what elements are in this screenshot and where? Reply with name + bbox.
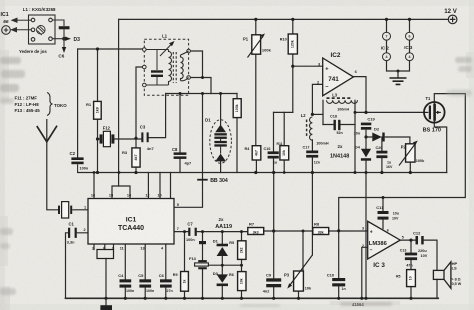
wire: R1 to F12 to bus <box>97 119 99 172</box>
antenna <box>37 126 57 142</box>
capacitor C10 <box>332 278 345 286</box>
connector IC1 pin view box <box>29 15 56 44</box>
capacitor C18 <box>334 120 341 130</box>
diode D3 AA119 <box>217 274 228 286</box>
potentiometer P2 <box>399 141 418 166</box>
label P3 10k <box>284 272 312 290</box>
resistor R1 <box>94 101 102 119</box>
wire: R11 column <box>283 112 285 172</box>
wire: C17 wiper column with P3 arrow lead <box>311 158 313 255</box>
wire: 741 output down to detector line <box>353 77 366 113</box>
wire: tank frame right down to bus <box>354 100 356 172</box>
capacitor C19 <box>361 123 371 130</box>
capacitor C9 <box>266 278 281 287</box>
label C12 220u 10V <box>413 230 428 258</box>
capacitor C6b <box>160 279 172 287</box>
ceramic filter F11 <box>58 202 72 218</box>
wire: C10 column stub <box>338 231 340 298</box>
diode D1 AA119 <box>217 244 228 256</box>
wire: F12 leads <box>98 138 142 140</box>
ceramic filter F12 <box>100 131 114 146</box>
wire: supply pins 4 to ground <box>387 61 410 77</box>
brace for TOKO <box>47 93 53 116</box>
wire: pin 11 to C4 <box>124 244 126 298</box>
wire: P3 bottom stub <box>298 291 300 298</box>
resistor R4 <box>252 146 261 160</box>
wire: left 12V drop to pins 15/14 link <box>118 19 120 186</box>
label C10 1n <box>327 273 346 292</box>
IC1 pin number labels <box>84 194 179 251</box>
wire: C13/R5 column <box>410 240 412 298</box>
resistor R12 <box>407 270 416 287</box>
wire: node at y49 to L1 <box>78 48 145 50</box>
wire: IC1 bottom pins 2,8,9 into box <box>94 244 114 250</box>
L1 shield dashed box <box>144 39 188 95</box>
wire: F13 column <box>202 232 204 299</box>
wire: R4 bottom stub <box>255 160 257 173</box>
wire: P1 column <box>255 19 257 145</box>
wire: P2 bottom stub <box>409 162 411 172</box>
wire: R7 to R8 link <box>264 230 313 232</box>
capacitor C12 <box>416 236 424 244</box>
wire: AA119 diode column <box>221 232 223 299</box>
wire: C19 to D2 anode <box>366 130 372 137</box>
wire: speaker to rail <box>436 279 438 298</box>
wire: 741 pin2 lead down to L2 <box>312 84 322 114</box>
L1 tuning arrow <box>160 41 175 56</box>
wire: C16 column <box>273 112 275 172</box>
paper shading artifacts <box>0 0 474 6</box>
diode D2 <box>372 133 384 142</box>
wire: IC2/IC3 supply pin stubs <box>387 19 410 52</box>
wire: 741 pin3 lead <box>293 65 323 67</box>
wire: C8 column <box>179 94 181 173</box>
resistor R5 <box>238 241 246 260</box>
capacitor C13 <box>405 253 417 260</box>
wire: C3 right lead up to L1 bottom <box>149 94 166 138</box>
arrows to terminal labels <box>12 18 32 32</box>
capacitor C11 <box>378 211 389 220</box>
wire: pin15-pin14 link <box>112 186 130 199</box>
potentiometer P1 <box>248 34 266 58</box>
wire: IC1 pin7 output line to R7 <box>174 231 248 233</box>
wire: +12V top rail <box>119 18 449 20</box>
capacitor C3 <box>141 132 148 142</box>
L1 terminals <box>143 48 191 87</box>
resistor R3 <box>132 148 140 167</box>
label HP LS speaker <box>451 261 461 286</box>
wire: drop to C2 <box>77 49 79 157</box>
label C13 47n <box>400 248 414 267</box>
wire: R2 100k column <box>236 94 238 173</box>
capacitor C1 <box>68 228 77 238</box>
L1 internal padder capacitor <box>146 50 166 86</box>
wire: detector line to T1 gate <box>355 111 424 113</box>
resistor R7 <box>248 228 264 235</box>
resistor R2 100k <box>233 99 241 118</box>
wire: node line under L1 <box>166 93 237 95</box>
resistor R8 <box>313 228 329 235</box>
capacitor C4 <box>120 279 132 287</box>
label C11 10u 10V <box>376 205 399 221</box>
wire: IC1 top pin columns <box>94 173 171 199</box>
capacitor C7 <box>188 228 197 236</box>
label BB304 with dash <box>197 178 228 184</box>
wire: long column bus to C9 to rail <box>273 173 275 299</box>
wire: tank bottom edge <box>323 124 355 126</box>
ground near IC2/IC3 <box>390 78 407 84</box>
12V supply terminal <box>448 15 457 24</box>
ground symbol bottom <box>100 305 112 310</box>
capacitor C20 <box>376 151 387 158</box>
wire: R8 to IC3 pin3 <box>329 230 368 232</box>
transistor T1 BS170 <box>424 102 445 123</box>
tank coil L3 <box>327 98 358 103</box>
filter list F11 F12 F13 <box>15 96 68 114</box>
resistor R10 <box>288 34 297 54</box>
wire: L2 node to tank <box>312 113 323 115</box>
label 2x AA119 <box>215 217 232 230</box>
resistor R9 <box>181 272 189 292</box>
loudspeaker HP LS <box>433 262 451 289</box>
label C4 100n <box>118 273 134 293</box>
wire: oscillator line to IC1 pin5 <box>174 94 202 208</box>
quartz filter box under pins 8/9 <box>97 250 114 259</box>
capacitor C17 <box>306 151 318 158</box>
wire: D1 varicap column <box>220 94 222 173</box>
wire: C1 ground leg and bottom rail left corner <box>66 233 89 298</box>
label 1u 16V C20 <box>386 160 393 169</box>
node 66 terminal <box>2 26 11 35</box>
wire: pin 4 to C6 <box>165 244 167 298</box>
resistor R11 <box>280 146 289 160</box>
wire: IC3 pin2 to ground <box>362 247 368 298</box>
op-amp IC3 LM386 <box>362 221 404 268</box>
resistor R6 <box>238 272 246 291</box>
wire: P3 feed column <box>302 231 304 271</box>
wire: tank frame left <box>322 100 324 124</box>
wire: IC3 output to C12 <box>400 239 415 241</box>
capacitor C5 <box>139 279 151 287</box>
wire: pin 13 to C5 <box>144 244 146 298</box>
wire: antenna down lead <box>47 120 58 210</box>
wire: L2 to C17 <box>311 140 313 151</box>
wire: L1 mid terminal to R3 column <box>136 67 144 148</box>
coil former hatched circle <box>37 26 46 36</box>
wire: T1 drain to supply loop <box>339 94 466 231</box>
capacitor C8 <box>174 152 187 159</box>
op-amp IC2 741 <box>317 52 358 96</box>
capacitor C16 <box>268 151 279 158</box>
varicap D1 BB304 <box>210 120 232 164</box>
wire to D3 with arrow <box>52 37 71 41</box>
label 2x 1N4148 <box>330 144 349 160</box>
ceramic resonator F13 <box>195 241 209 269</box>
wire: bottom ground rail <box>66 297 439 299</box>
wire: C20 column <box>381 137 383 173</box>
potentiometer P3 <box>287 255 312 291</box>
L1 transformer windings <box>166 50 189 86</box>
wire: C11 column <box>382 198 384 229</box>
wire: F13 to diode junction <box>209 264 242 266</box>
wire: IF feed line y112 <box>274 111 293 113</box>
wire: D4 column to rail <box>365 137 367 298</box>
label C9 4n2 <box>263 272 272 293</box>
inductor L2 <box>307 117 313 140</box>
trimmer C6 bar and arrow <box>52 20 69 53</box>
label C5 100n <box>138 273 154 293</box>
wire: quartz box to ground with earth stub <box>105 259 107 306</box>
wire: T1 source to bus corner <box>434 123 446 173</box>
wire: R1 column top <box>97 49 99 101</box>
wire: R3 bottom stub <box>135 167 137 172</box>
wire: F11 to IC1 pin1 <box>73 209 88 211</box>
capacitor C2 <box>71 157 83 172</box>
wire: R10 column <box>292 19 294 112</box>
wire: R9 column <box>184 232 186 299</box>
wire: L1 right side links <box>189 51 211 94</box>
IC1 TCA440 box <box>88 199 174 245</box>
wire: R5/R6 column <box>241 232 243 299</box>
diode D4 <box>361 149 371 161</box>
wire: main horizontal bus <box>78 172 447 174</box>
wire: D2 cathode to P2 <box>385 137 410 144</box>
wire: C12 to speaker <box>424 240 437 270</box>
label C6 27n <box>159 273 173 293</box>
IC2/IC3 supply pin circles <box>383 32 414 61</box>
